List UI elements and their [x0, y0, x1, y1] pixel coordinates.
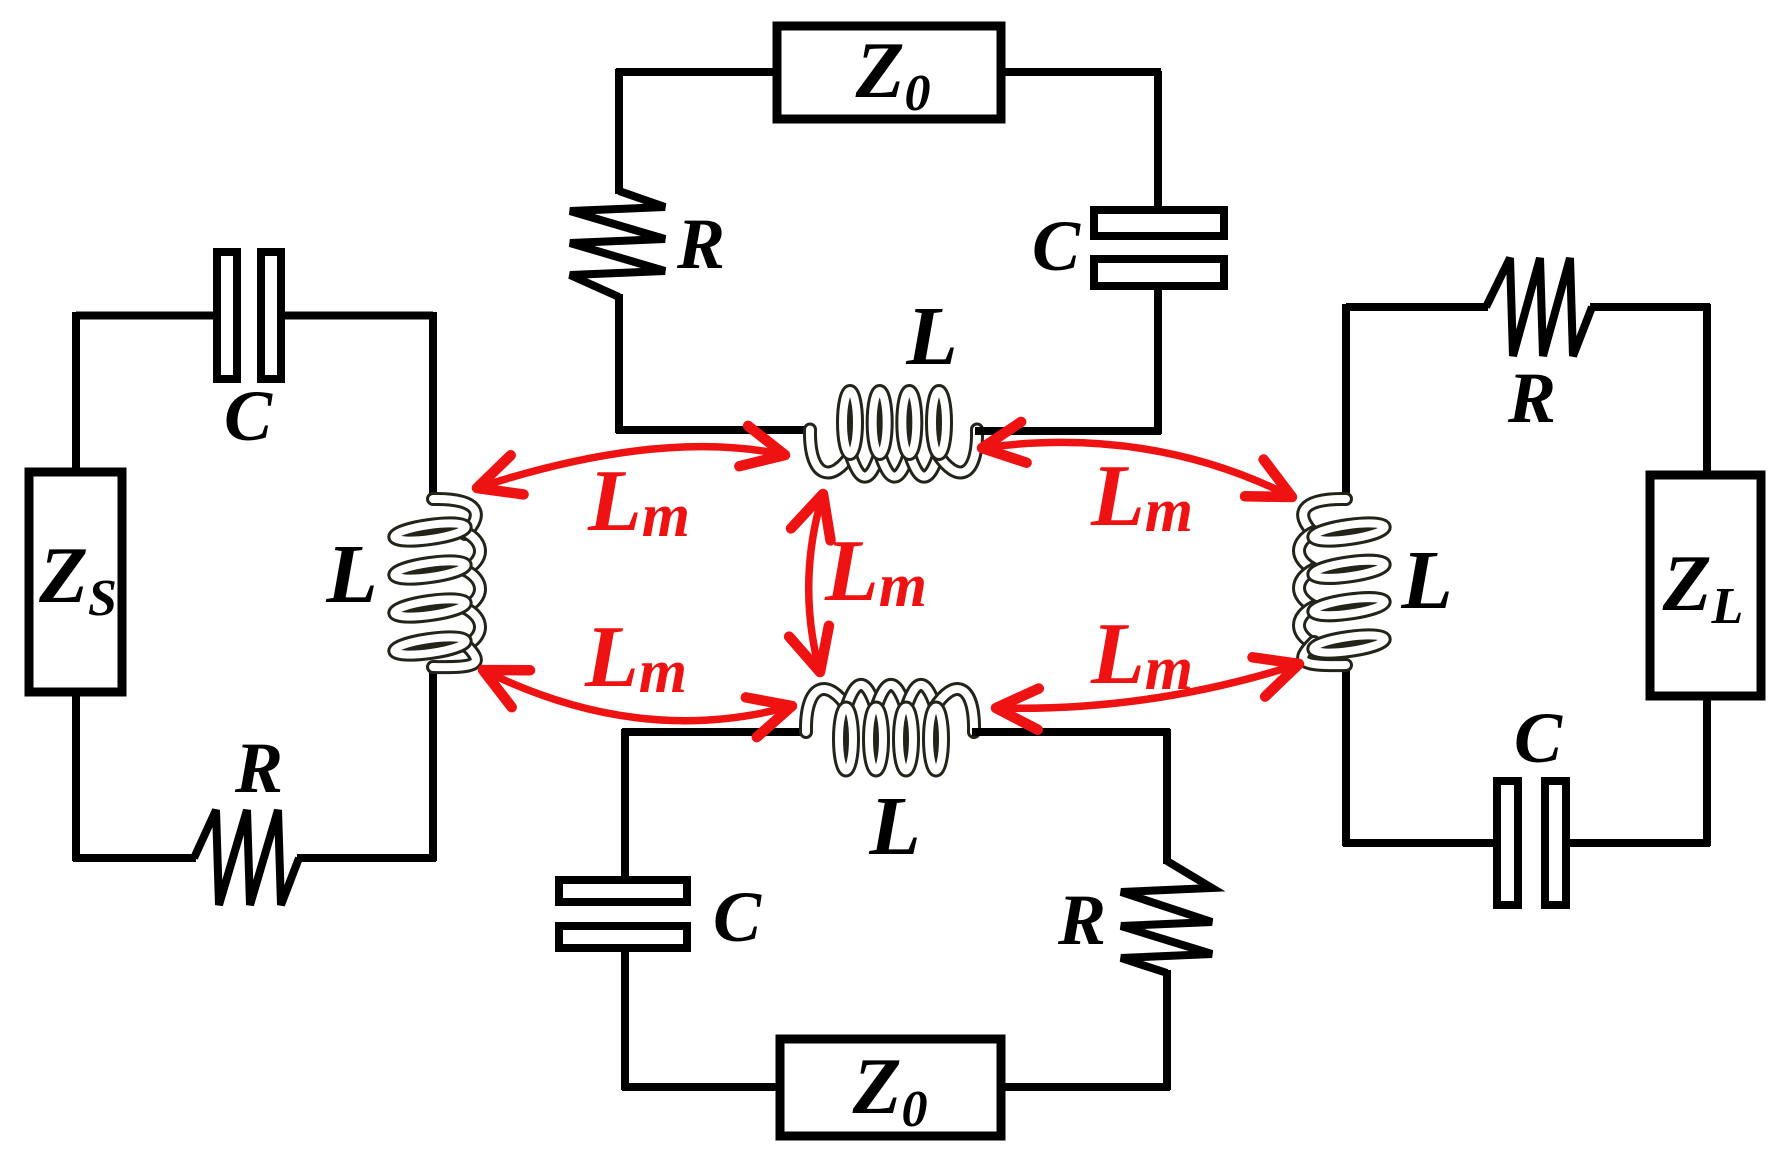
wire right-loop top-left [1346, 303, 1488, 311]
wire right-loop left-upper [1342, 304, 1350, 500]
capacitor C (left loop) [217, 252, 237, 379]
wire top-loop right-upper [1154, 71, 1162, 213]
wire left-loop bottom-right [297, 854, 436, 862]
svg-text:C: C [224, 376, 273, 456]
coupling arrow Lm top-right [982, 442, 1292, 497]
capacitor C (top loop) [1094, 210, 1224, 236]
wire bottom-loop bottom-left [622, 1083, 784, 1091]
wire bottom-loop left-lower [621, 948, 629, 1090]
svg-text:C: C [713, 877, 762, 957]
wire top-loop left-upper [615, 69, 623, 194]
svg-text:C: C [1514, 698, 1563, 778]
wire right-loop left-lower [1342, 662, 1350, 846]
wire right-loop bottom-left [1343, 839, 1501, 847]
capacitor C (bottom loop) [559, 880, 687, 902]
resistor R (bottom loop) [1121, 861, 1212, 973]
wire bottom-loop upper-right [972, 728, 1170, 736]
wire bottom-loop left-upper [621, 729, 629, 883]
inductor L (left loop coil) [433, 499, 476, 534]
load ZL [1650, 475, 1761, 696]
inductor L (bottom loop coil) [806, 689, 848, 732]
wire bottom-loop bottom-right [997, 1083, 1170, 1091]
wire top-loop upper-right [997, 68, 1161, 76]
coupling arrow Lm top-left [477, 447, 785, 488]
wire left-loop left-lower [72, 688, 80, 861]
svg-text:L: L [1400, 534, 1452, 627]
coupling arrow Lm bottom-right [996, 664, 1299, 708]
resistor R (left loop) [194, 810, 299, 905]
wire left-loop top-right [278, 312, 433, 320]
wire top-loop left-lower [615, 294, 623, 433]
wire bottom-loop right-upper [1163, 729, 1171, 864]
svg-text:L: L [325, 528, 377, 621]
wire right-loop top-right [1590, 303, 1710, 311]
wire left-loop left-upper [72, 312, 80, 476]
capacitor C (right loop) [1497, 781, 1518, 905]
source Zs [29, 472, 122, 692]
wire right-loop right-upper [1703, 304, 1711, 479]
resistor R (top loop) [570, 191, 665, 297]
svg-text:R: R [676, 204, 725, 284]
coupling arrow Lm bottom-left [483, 670, 792, 721]
inductor L (top loop coil) [810, 430, 852, 473]
svg-text:L: L [905, 290, 957, 383]
load Z0 (bottom) [780, 1039, 1001, 1136]
wire left-loop right-lower [429, 664, 437, 861]
wire top-loop right-lower [1154, 286, 1162, 434]
coupling arrow Lm vertical [809, 494, 823, 672]
wire left-loop bottom-left [73, 854, 196, 862]
wire top-loop bottom-left [616, 426, 812, 434]
wire right-loop bottom-right [1562, 839, 1710, 847]
load Z0 (top) [777, 26, 1001, 119]
wire left-loop right-upper [429, 312, 437, 500]
svg-text:R: R [1507, 358, 1556, 438]
svg-text:R: R [234, 728, 283, 808]
resistor R (right loop) [1486, 258, 1592, 356]
wire top-loop bottom-right [975, 427, 1161, 435]
svg-text:L: L [868, 780, 920, 873]
wire bottom-loop upper-left [622, 728, 808, 736]
wire bottom-loop right-lower [1163, 970, 1171, 1090]
wire top-loop upper-left [616, 68, 781, 76]
inductor L (right loop coil) [1303, 499, 1346, 534]
svg-text:C: C [1032, 206, 1081, 286]
svg-text:R: R [1057, 880, 1106, 960]
wire right-loop right-lower [1703, 692, 1711, 846]
wire left-loop top-left [76, 312, 221, 320]
